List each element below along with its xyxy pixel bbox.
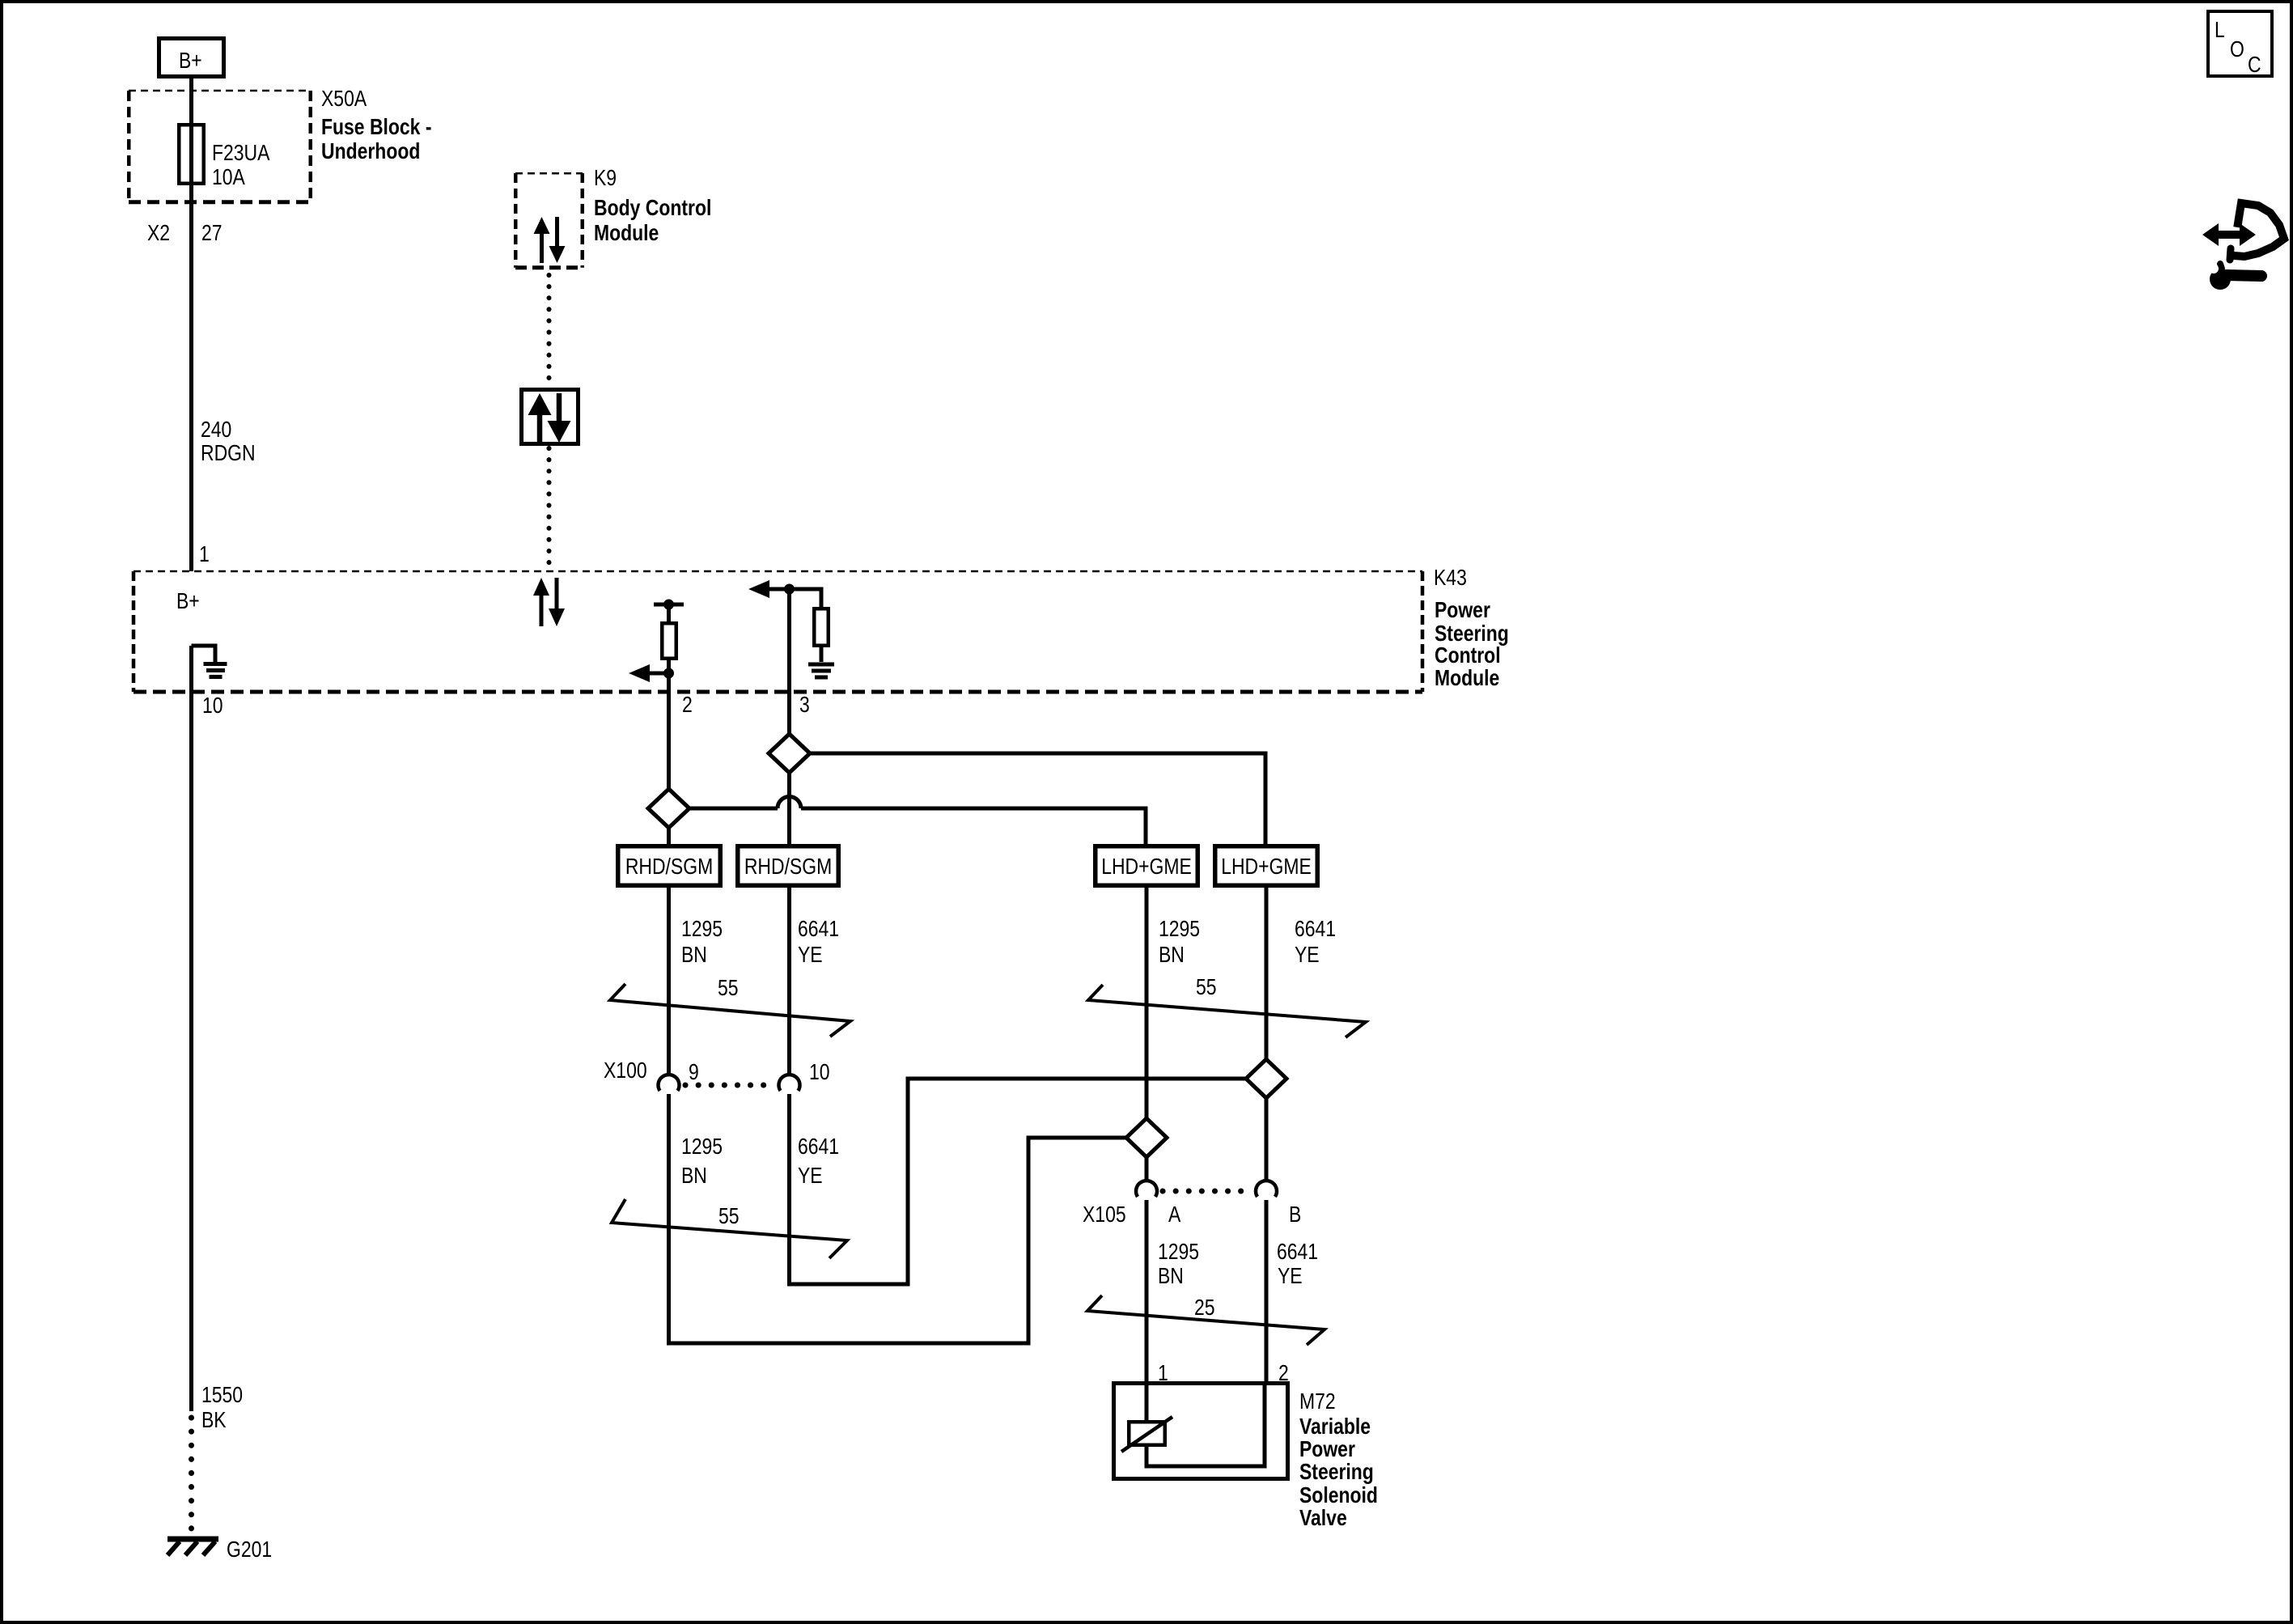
diamond splice at X105 B wire <box>1246 1059 1286 1098</box>
svg-text:X2: X2 <box>147 221 170 246</box>
diagram navigation icon <box>2202 203 2284 290</box>
label X50A Fuse Block - Underhood <box>321 87 431 164</box>
wire label 1295 BN (RHD) <box>681 917 723 968</box>
wire LHD left box down to diamond <box>1145 888 1149 1119</box>
internal coil wiring of M72 <box>1146 1381 1265 1466</box>
svg-text:X105: X105 <box>1083 1202 1126 1228</box>
option box LHD+GME right <box>1215 846 1318 886</box>
wire X105 B to M72 pin 2 <box>1265 1200 1269 1381</box>
serial data link box <box>522 390 579 444</box>
label M72 Variable Power Steering Solenoid Valve <box>1299 1389 1378 1531</box>
svg-text:55: 55 <box>1196 975 1217 1000</box>
svg-text:G201: G201 <box>227 1537 272 1563</box>
svg-text:YE: YE <box>1295 943 1320 968</box>
svg-text:Control: Control <box>1435 643 1501 668</box>
wire LHD right box down to diamond <box>1265 888 1269 1061</box>
svg-text:YE: YE <box>798 943 823 968</box>
svg-text:X50A: X50A <box>321 87 367 112</box>
ground G201 chassis symbol <box>167 1539 218 1555</box>
svg-text:6641: 6641 <box>1277 1240 1318 1265</box>
wire right RHD box to X100 pin 10 <box>787 888 791 1075</box>
wire diamond to X105 pin B <box>1265 1098 1269 1181</box>
dotted connector tie X100 <box>685 1083 774 1088</box>
dotted connector tie X105 <box>1163 1189 1252 1194</box>
label K9 Body Control Module <box>594 166 711 246</box>
svg-text:Valve: Valve <box>1299 1506 1347 1531</box>
M72 solenoid valve box <box>1114 1384 1288 1479</box>
svg-text:RHD/SGM: RHD/SGM <box>625 854 713 880</box>
internal ground hook at pin 10 <box>192 646 227 677</box>
svg-text:55: 55 <box>718 976 739 1001</box>
svg-text:10A: 10A <box>212 165 246 190</box>
diamond splice on pin 3 wire <box>769 734 810 773</box>
svg-text:BN: BN <box>681 1164 707 1189</box>
wire diamond to X105 pin A <box>1145 1157 1149 1181</box>
svg-text:A: A <box>1168 1202 1181 1228</box>
solenoid coil symbol <box>1121 1417 1172 1452</box>
wire diamond1 bottom to right RHD box <box>787 773 791 844</box>
svg-text:1550: 1550 <box>201 1383 243 1408</box>
fuse block X50A dashed outline <box>129 91 311 202</box>
wire label 6641 YE below X105 <box>1277 1240 1318 1289</box>
svg-text:6641: 6641 <box>798 1134 839 1160</box>
option box LHD+GME left <box>1096 846 1198 886</box>
wire label 6641 YE (RHD) <box>798 917 839 968</box>
svg-text:X100: X100 <box>604 1058 647 1083</box>
svg-text:1295: 1295 <box>1158 1240 1199 1265</box>
svg-text:Power: Power <box>1435 598 1490 623</box>
svg-text:K9: K9 <box>594 166 617 191</box>
svg-text:10: 10 <box>202 693 223 719</box>
svg-text:Power: Power <box>1299 1437 1355 1462</box>
connector X105 terminal pin A <box>1136 1181 1157 1197</box>
svg-text:10: 10 <box>809 1060 830 1085</box>
K9 Body Control Module dashed box <box>515 173 583 268</box>
connector X105 terminal pin B <box>1256 1181 1277 1197</box>
svg-text:27: 27 <box>201 221 223 246</box>
svg-text:Variable: Variable <box>1299 1414 1371 1440</box>
svg-text:1295: 1295 <box>681 917 723 942</box>
svg-text:LHD+GME: LHD+GME <box>1101 854 1192 880</box>
svg-text:BN: BN <box>681 943 707 968</box>
svg-text:Body Control: Body Control <box>594 196 711 221</box>
bus wire from diamond on pin3 to right LHD+GME <box>810 753 1265 844</box>
svg-text:55: 55 <box>718 1204 740 1229</box>
svg-text:6641: 6641 <box>1295 917 1336 942</box>
harness crossing 55 below X100 <box>612 1199 847 1258</box>
svg-text:1295: 1295 <box>681 1134 723 1160</box>
diamond splice at X105 A wire <box>1126 1118 1167 1157</box>
svg-text:25: 25 <box>1194 1295 1215 1321</box>
serial data arrows inside K43 <box>533 578 565 626</box>
wire label 1295 BN below X105 <box>1158 1240 1199 1289</box>
signal arrow left at pin 3 node <box>748 580 795 598</box>
svg-text:F23UA: F23UA <box>212 141 270 166</box>
svg-text:Module: Module <box>594 221 659 246</box>
label K43 Power Steering Control Module <box>1434 566 1509 691</box>
svg-text:RHD/SGM: RHD/SGM <box>744 854 832 880</box>
svg-text:K43: K43 <box>1434 566 1467 591</box>
svg-text:BN: BN <box>1159 943 1185 968</box>
svg-text:Steering: Steering <box>1299 1460 1374 1485</box>
svg-text:O: O <box>2230 37 2244 62</box>
svg-text:M72: M72 <box>1299 1389 1336 1414</box>
connector X100 terminal pin 10 <box>779 1075 800 1091</box>
svg-text:LHD+GME: LHD+GME <box>1221 854 1312 880</box>
wire pin3 down to diamond splice <box>787 589 791 736</box>
wire left RHD box to X100 pin 9 <box>667 888 671 1075</box>
svg-text:C: C <box>2248 53 2261 78</box>
svg-text:1: 1 <box>199 542 210 567</box>
option box RHD/SGM left <box>618 846 721 886</box>
B+ power symbol box <box>159 39 224 77</box>
svg-text:B+: B+ <box>176 589 200 614</box>
serial data arrows inside K9 <box>534 217 566 263</box>
svg-text:1295: 1295 <box>1159 917 1200 942</box>
wire pin 10 to ground G201 <box>189 646 193 1411</box>
connector X100 terminal pin 9 <box>659 1075 680 1091</box>
wire label 240 RDGN <box>201 418 256 466</box>
wire pin2 resistor to diamond splice <box>667 660 671 791</box>
svg-text:Underhood: Underhood <box>321 139 420 164</box>
signal arrow left at pin 2 node <box>629 664 674 682</box>
wire X105 A to M72 pin 1 <box>1145 1200 1149 1381</box>
svg-text:240: 240 <box>201 418 231 443</box>
diamond splice on pin 2 wire <box>648 789 689 828</box>
routed wire X100 pin10 to diamond at X105 B <box>790 1079 1247 1284</box>
svg-text:Solenoid: Solenoid <box>1299 1483 1378 1508</box>
fuse F23UA 10A <box>179 125 270 189</box>
harness crossing 55 left <box>610 976 850 1037</box>
option box RHD/SGM right <box>738 846 839 886</box>
LOC reference box <box>2208 11 2272 78</box>
svg-text:3: 3 <box>799 693 810 718</box>
harness crossing 55 right <box>1088 975 1366 1037</box>
svg-text:YE: YE <box>1278 1264 1303 1289</box>
pull-up resistor on pin 2 line inside K43 <box>654 600 684 659</box>
svg-text:B: B <box>1289 1202 1301 1228</box>
dotted wire to G201 <box>189 1418 194 1536</box>
wire diamond2 bottom to left RHD box <box>667 828 671 844</box>
svg-text:2: 2 <box>682 693 693 718</box>
wire label 6641 YE (LHD) <box>1295 917 1336 968</box>
svg-text:9: 9 <box>689 1060 699 1085</box>
svg-text:L: L <box>2215 18 2225 43</box>
wire from B+ through fuse to K43 pin 1 <box>189 78 193 571</box>
wire label 1295 BN (LHD) <box>1159 917 1200 968</box>
pull-down resistor to ground inside K43 on pin 3 line <box>790 589 835 677</box>
wire label 1550 BK <box>201 1383 243 1433</box>
harness crossing 25 <box>1087 1295 1325 1345</box>
dotted serial data wire K9 to box <box>547 275 552 388</box>
svg-text:YE: YE <box>798 1164 823 1189</box>
svg-text:BK: BK <box>201 1408 227 1433</box>
dotted serial data wire box to K43 <box>547 448 552 569</box>
routed wire X100 pin9 to diamond at X105 A <box>669 1094 1127 1343</box>
svg-text:BN: BN <box>1158 1264 1184 1289</box>
svg-text:Module: Module <box>1435 666 1499 691</box>
svg-text:Fuse Block -: Fuse Block - <box>321 115 431 140</box>
K43 module dashed outline <box>134 571 1422 692</box>
svg-text:RDGN: RDGN <box>201 441 256 466</box>
bus wire from diamond on pin2 to left LHD+GME with hop <box>689 797 1146 845</box>
wire label 1295 BN below X100 <box>681 1134 723 1189</box>
wire label 6641 YE below X100 <box>798 1134 839 1189</box>
svg-text:B+: B+ <box>179 49 202 74</box>
svg-text:6641: 6641 <box>798 917 839 942</box>
